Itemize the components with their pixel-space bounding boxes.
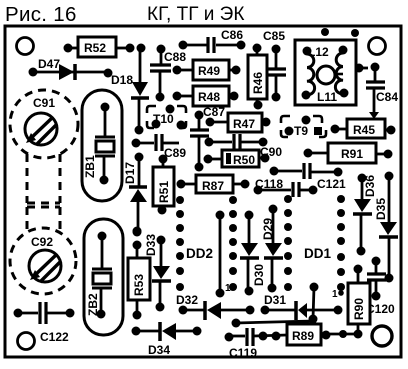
crystal ZB2: [84, 219, 123, 335]
svg-text:D34: D34: [148, 343, 170, 357]
svg-text:C121: C121: [317, 177, 346, 191]
resistor R87: [177, 175, 250, 193]
svg-text:C119: C119: [229, 346, 257, 360]
svg-text:R52: R52: [84, 41, 106, 55]
resistor R53: [128, 227, 150, 320]
crystal ZB1: [82, 90, 122, 201]
diode D30: [240, 211, 266, 296]
inductors L12 L11 box: [295, 28, 368, 105]
svg-text:R51: R51: [157, 181, 171, 203]
pin-1 marker DD1: [332, 289, 344, 300]
mounting hole bottom-left: [18, 333, 35, 350]
svg-text:D31: D31: [264, 293, 286, 307]
capacitor C122: [14, 302, 75, 344]
svg-text:C92: C92: [31, 235, 53, 249]
svg-text:DD1: DD1: [304, 246, 331, 261]
svg-text:R91: R91: [341, 147, 363, 161]
svg-text:C86: C86: [221, 28, 243, 42]
diode D29: [261, 205, 283, 293]
svg-text:R53: R53: [132, 274, 146, 296]
svg-text:R87: R87: [202, 179, 224, 193]
svg-text:C87: C87: [203, 105, 225, 119]
capacitor C86: [179, 28, 246, 53]
svg-text:R89: R89: [292, 329, 314, 343]
trimmer capacitor C91: [10, 90, 78, 203]
svg-text:R46: R46: [251, 72, 265, 94]
svg-text:D35: D35: [374, 198, 388, 220]
diode D36: [353, 174, 377, 256]
svg-text:1: 1: [332, 289, 338, 300]
resistor R48: [173, 86, 239, 106]
mounting hole top-right: [369, 38, 386, 55]
resistor R52: [64, 37, 135, 57]
IC DD2 pads right column: [229, 196, 237, 291]
resistor R90: [348, 265, 370, 339]
svg-text:ZB1: ZB1: [83, 155, 97, 178]
mounting hole bottom-right: [372, 326, 392, 346]
svg-text:R45: R45: [353, 123, 375, 137]
wire vertical x313: [309, 283, 319, 324]
resistor R51: [153, 155, 174, 215]
svg-text:R50: R50: [233, 153, 255, 167]
IC DD1 pads right column: [337, 195, 345, 291]
capacitor C120: [366, 257, 395, 317]
capacitor C119: [225, 328, 288, 360]
resistor R46: [248, 44, 267, 110]
svg-text:D17: D17: [123, 162, 137, 184]
svg-text:C85: C85: [263, 29, 285, 43]
diode D34: [132, 322, 202, 357]
svg-text:D30: D30: [252, 264, 266, 286]
diode D47: [29, 57, 113, 80]
resistor R49: [173, 60, 241, 80]
svg-text:L11: L11: [317, 90, 337, 104]
wire horizontal y322: [232, 319, 314, 328]
resistor R45: [331, 119, 396, 138]
IC DD2 pads left column: [176, 196, 184, 291]
capacitor C89: [132, 134, 187, 160]
svg-text:T9: T9: [294, 124, 308, 138]
svg-text:D47: D47: [38, 57, 60, 71]
IC DD1 pads left column: [284, 195, 292, 291]
svg-text:C91: C91: [33, 96, 55, 110]
svg-text:1: 1: [225, 283, 231, 294]
capacitor C87: [190, 105, 225, 172]
trimmer capacitor C92: [10, 207, 76, 294]
svg-text:R47: R47: [233, 117, 255, 131]
diode D32: [176, 293, 255, 320]
resistor R50: [204, 150, 270, 167]
capacitor C84: [366, 63, 398, 120]
test point T10: [147, 105, 186, 130]
mounting hole top-left: [17, 38, 34, 55]
diode D33: [144, 234, 171, 312]
svg-text:D33: D33: [144, 234, 158, 256]
svg-text:ZB2: ZB2: [86, 293, 100, 316]
svg-text:C122: C122: [40, 330, 69, 344]
svg-text:R90: R90: [352, 298, 366, 320]
diode D18: [111, 44, 149, 135]
capacitor C118: [254, 177, 318, 197]
diode D31: [261, 293, 343, 320]
svg-text:КГ, ТГ и ЭК: КГ, ТГ и ЭК: [147, 4, 244, 25]
diode D17: [123, 153, 147, 237]
wire vertical x220: [216, 211, 225, 298]
capacitor C90: [205, 134, 283, 159]
resistor R91: [304, 143, 393, 163]
svg-text:C84: C84: [376, 90, 398, 104]
svg-text:D18: D18: [111, 73, 133, 87]
svg-text:R48: R48: [198, 90, 220, 104]
capacitor C121: [270, 163, 347, 191]
svg-text:R49: R49: [198, 64, 220, 78]
resistor R89: [287, 324, 358, 345]
pin-1 marker DD2: [225, 283, 237, 294]
svg-text:D32: D32: [176, 293, 198, 307]
diode D35: [374, 172, 398, 283]
resistor R47: [206, 113, 271, 132]
capacitor C85: [263, 29, 286, 102]
svg-text:C88: C88: [164, 50, 186, 64]
test point T9: [281, 116, 326, 139]
svg-text:Рис. 16: Рис. 16: [5, 3, 77, 26]
svg-text:DD2: DD2: [186, 246, 213, 261]
capacitor C88: [150, 45, 186, 102]
